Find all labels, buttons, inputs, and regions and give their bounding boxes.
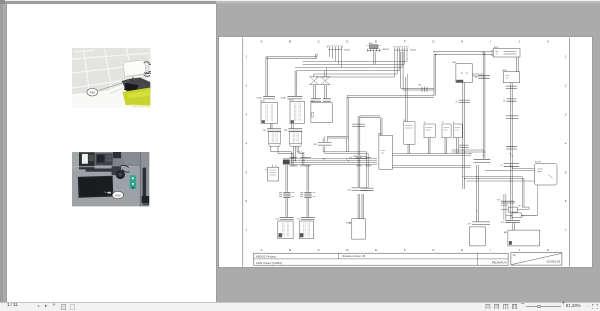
svg-text:X62: X62	[283, 130, 287, 132]
ticks on second middle pair	[361, 188, 373, 191]
connector ticks W (zone G)	[418, 84, 427, 91]
svg-text:4: 4	[245, 141, 247, 145]
svg-text:30: 30	[403, 119, 405, 121]
bottom toolbar	[0, 302, 600, 311]
svg-text:X8: X8	[503, 100, 505, 102]
pair K3 to bus	[445, 137, 447, 153]
svg-text:X63: X63	[313, 144, 317, 146]
connector X1 (zone C/D) dashed housing with pins	[327, 45, 342, 51]
svg-text:2: 2	[245, 83, 247, 87]
svg-text:D+: D+	[452, 122, 454, 124]
svg-text:SCM19-03: SCM19-03	[546, 259, 560, 263]
bus junction dots	[290, 158, 360, 161]
cluster stub wires	[501, 205, 537, 215]
top bar fade right side	[216, 1, 600, 4]
svg-text:6: 6	[245, 199, 247, 203]
title block text A50/51 Project	[255, 254, 275, 258]
wire pair X3 to ticks right	[400, 51, 433, 89]
frame left border line	[241, 37, 243, 266]
label X2	[369, 42, 390, 51]
svg-text:K: K	[547, 39, 549, 43]
pair K4 to bus	[456, 137, 458, 153]
ticks above box C4	[467, 221, 489, 224]
pair C to module C3	[358, 194, 360, 219]
wire pair corner at G down	[347, 54, 436, 121]
svg-text:A50: A50	[369, 42, 372, 45]
svg-text:G: G	[432, 248, 434, 252]
left page	[7, 4, 216, 303]
svg-text:X72: X72	[296, 218, 299, 220]
terminator R1 box	[265, 164, 279, 180]
box K4	[452, 122, 461, 138]
pair A113 through cluster	[510, 203, 512, 220]
svg-text:BL.MT: BL.MT	[535, 161, 542, 163]
wire pair down to connector of A1	[265, 56, 267, 95]
title block text RE38/AUX	[491, 260, 506, 264]
svg-text:J: J	[518, 248, 520, 252]
wire BL.MT down and left	[521, 185, 538, 215]
svg-text:X7: X7	[455, 101, 457, 103]
pair B2 below bus	[307, 164, 309, 191]
second pair into module C3	[362, 194, 364, 219]
svg-text:CAN Class (CAN2): CAN Class (CAN2)	[255, 260, 281, 264]
plug P2 body	[289, 131, 301, 146]
X2 pair drop to fan	[373, 51, 375, 64]
connector bars H4	[300, 192, 315, 197]
plug P2 connector bar	[283, 128, 301, 131]
pairs above splices	[313, 67, 326, 77]
zone letters bottom row	[260, 248, 549, 252]
svg-text:R3: R3	[522, 215, 524, 217]
svg-text:X73: X73	[347, 189, 350, 191]
svg-text:K: K	[547, 248, 549, 252]
box C5	[503, 230, 539, 246]
svg-text:A: A	[260, 39, 262, 43]
svg-text:A62: A62	[452, 60, 455, 63]
svg-text:X5: X5	[475, 77, 477, 79]
relay BL.MT rounded box	[534, 161, 557, 184]
title block text Release number xB	[342, 255, 365, 258]
svg-text:R2: R2	[518, 205, 520, 207]
photo 1: antenna on cab roof	[72, 48, 150, 108]
svg-text:7: 7	[564, 228, 566, 232]
wire pair top run to module A112	[434, 51, 493, 54]
ticks on A113 drop 3	[505, 115, 518, 118]
svg-text:X71: X71	[275, 218, 278, 220]
plug P1 connector bar	[262, 128, 280, 131]
svg-text:15: 15	[423, 122, 425, 124]
connector ticks above module A3 right	[322, 98, 330, 100]
svg-text:A116: A116	[310, 99, 314, 102]
cluster connector bar row	[497, 199, 515, 203]
wire pair D column down	[347, 95, 349, 136]
svg-text:X4021: X4021	[344, 49, 351, 51]
junction zone horizontals	[451, 150, 537, 207]
svg-text:31: 31	[441, 122, 443, 124]
resistor R3 box	[512, 212, 524, 217]
module C3 box	[351, 218, 365, 238]
label X1031	[256, 97, 263, 99]
svg-text:A114: A114	[260, 99, 264, 102]
wire pair from right into plug P3	[327, 136, 348, 152]
ticks on A62 drop 1	[455, 100, 470, 103]
svg-text:I: I	[490, 248, 491, 252]
svg-text:A50: A50	[503, 231, 506, 234]
CAN bus right lower segment	[392, 165, 470, 167]
svg-text:A63: A63	[378, 132, 381, 135]
pair to ground module C1	[275, 198, 293, 220]
frame right border line	[568, 37, 570, 266]
label X3	[410, 49, 417, 51]
wire pair A3 to bus	[297, 146, 304, 165]
svg-text:I: I	[490, 39, 491, 43]
svg-text:D: D	[346, 248, 348, 252]
svg-text:X95: X95	[497, 199, 500, 201]
pair from A2 to plug P2	[291, 123, 293, 128]
svg-text:2: 2	[564, 83, 566, 87]
svg-text:E: E	[375, 39, 377, 43]
resistor R2 box	[508, 205, 520, 212]
svg-text:A50/51 Project: A50/51 Project	[255, 254, 275, 258]
splice SP1 shield symbol	[309, 76, 320, 84]
title block text CAN Class (CAN2)	[255, 260, 281, 264]
zone letters top row	[260, 39, 549, 43]
module A3 box	[310, 99, 332, 122]
module A113 box	[502, 68, 519, 82]
wire pair P2 to bus	[293, 146, 295, 161]
ticks on A62 drop 2	[459, 145, 469, 147]
wire pair corner at D5	[359, 115, 381, 134]
module C1 box	[277, 221, 292, 239]
svg-text:C: C	[317, 248, 319, 252]
title block sheet box SCM19-03	[510, 252, 561, 264]
ticks on trunk	[475, 75, 490, 78]
svg-text:J: J	[518, 39, 520, 43]
ticks wide right group	[473, 159, 490, 162]
X1 pin drops to fan	[335, 51, 341, 67]
svg-text:A50: A50	[90, 91, 96, 95]
svg-text:D: D	[346, 39, 348, 43]
connector X3 (zone F) dashed housing with pins	[393, 46, 408, 51]
trunk pair from top run	[483, 51, 485, 158]
svg-text:A115: A115	[289, 98, 293, 101]
module A6 tall box	[378, 132, 392, 169]
ticks on A113 drop 2	[503, 98, 516, 101]
module A62 box	[452, 60, 472, 82]
title block outer box	[253, 253, 507, 265]
pair P3 corner right and down	[323, 136, 368, 187]
svg-text:X61: X61	[262, 130, 266, 132]
svg-text:X1031: X1031	[256, 97, 263, 99]
schematic page drawing	[219, 37, 593, 268]
svg-text:G: G	[432, 39, 434, 43]
left gutter shading	[0, 0, 3, 310]
svg-text:X64: X64	[348, 157, 351, 159]
wire pair from X1 left to zone A	[265, 51, 331, 58]
svg-text:H: H	[460, 39, 462, 43]
pair K2 to bus	[428, 137, 430, 153]
wires A62 to trunk	[472, 74, 485, 76]
svg-text:A50: A50	[116, 194, 122, 198]
pair into box C5	[512, 223, 514, 230]
module A2 box	[289, 98, 304, 123]
junction dots top run	[433, 51, 485, 55]
pair A113 long drop	[510, 82, 512, 203]
svg-text:A: A	[260, 248, 262, 252]
pair SP1 down to module A115	[313, 84, 315, 98]
svg-text:RE38/AUX: RE38/AUX	[491, 260, 506, 264]
pair A112 down to A113	[516, 57, 518, 72]
connector bars H3	[279, 192, 294, 197]
svg-text:Release number: xB: Release number: xB	[342, 255, 365, 258]
plug P3 bars	[313, 142, 331, 146]
connector ticks above module A3 left	[311, 98, 321, 100]
CAN bus right upper segment	[392, 153, 470, 155]
bus crossing bars	[289, 157, 371, 165]
svg-text:F: F	[403, 39, 405, 43]
pair K1 to bus	[408, 144, 410, 153]
module A112 box top right	[491, 45, 520, 56]
ticks on pair C upper	[352, 124, 365, 127]
box K2	[423, 122, 435, 138]
box K3	[441, 122, 451, 138]
svg-text:1: 1	[564, 54, 566, 58]
bus shield bar	[282, 159, 289, 163]
svg-text:X9: X9	[500, 165, 502, 167]
pair A62 long drop	[462, 82, 464, 189]
top bar gray band over page	[0, 1, 216, 4]
svg-text:5: 5	[564, 170, 566, 174]
ticks above box C5	[501, 220, 520, 224]
cluster vertical lines	[503, 194, 505, 220]
svg-text:X4022: X4022	[410, 49, 417, 51]
wire pair P1 to bus	[270, 146, 292, 165]
ticks on A113 drop 1	[505, 86, 517, 88]
svg-text:3: 3	[245, 112, 247, 116]
top bar white row	[0, 0, 600, 1]
zone numbers right column	[564, 54, 566, 231]
svg-text:R: R	[265, 169, 267, 171]
pair right group to box C4	[476, 165, 478, 222]
label X1	[344, 49, 351, 51]
svg-text:B: B	[289, 248, 291, 252]
pair SP2 down to module A115 right pins	[324, 84, 326, 98]
svg-text:4: 4	[564, 141, 566, 145]
box K1	[403, 119, 415, 143]
box C4	[469, 226, 485, 245]
splice SP2 shield symbol	[320, 76, 331, 84]
svg-text:7: 7	[245, 228, 247, 232]
pair C bus to ticks	[347, 158, 367, 191]
svg-text:F: F	[403, 248, 405, 252]
plug P1 body	[268, 131, 280, 146]
svg-text:B: B	[289, 39, 291, 43]
svg-text:X75: X75	[467, 223, 470, 225]
wire fan horizontal bundle	[295, 61, 407, 77]
connector ticks above module A2	[280, 96, 302, 99]
wires into BL.MT	[484, 168, 534, 170]
junction dots right zone	[462, 149, 513, 211]
pair to ground module C2	[296, 198, 314, 220]
svg-text:H: H	[460, 248, 462, 252]
module C2 box	[299, 221, 313, 239]
connector ticks above module A1	[263, 96, 275, 99]
svg-text:3: 3	[564, 112, 566, 116]
right page	[219, 37, 593, 268]
top-left dark corner	[0, 0, 5, 4]
svg-text:1: 1	[245, 54, 247, 58]
CAN bus left segment	[282, 158, 376, 164]
pair B1 below bus	[285, 164, 287, 191]
svg-text:C: C	[317, 39, 319, 43]
ticks on A113 drop 2b	[506, 146, 517, 148]
svg-text:X76: X76	[501, 221, 504, 223]
zone numbers left column	[245, 54, 247, 231]
svg-text:X40: X40	[418, 84, 421, 86]
ticks on A113 drop 4	[500, 163, 519, 167]
svg-text:6: 6	[564, 199, 566, 203]
pair down to module A2	[295, 70, 297, 95]
arrow into module C3	[345, 222, 350, 224]
svg-text:X1032: X1032	[280, 97, 287, 99]
svg-text:A113: A113	[502, 68, 506, 71]
connector X2 (zone E) antenna unit plug	[366, 44, 382, 51]
photo 2: cab interior with monitor	[72, 152, 149, 206]
pair from A1 to plug P1	[270, 123, 272, 128]
module A1 box	[260, 99, 277, 123]
svg-text:A112: A112	[494, 45, 499, 48]
X3 pin drops to fan	[394, 51, 406, 76]
svg-text:A50/X1: A50/X1	[382, 47, 390, 50]
svg-text:E: E	[375, 248, 377, 252]
svg-text:5: 5	[245, 170, 247, 174]
pair C down through bus	[348, 115, 366, 159]
